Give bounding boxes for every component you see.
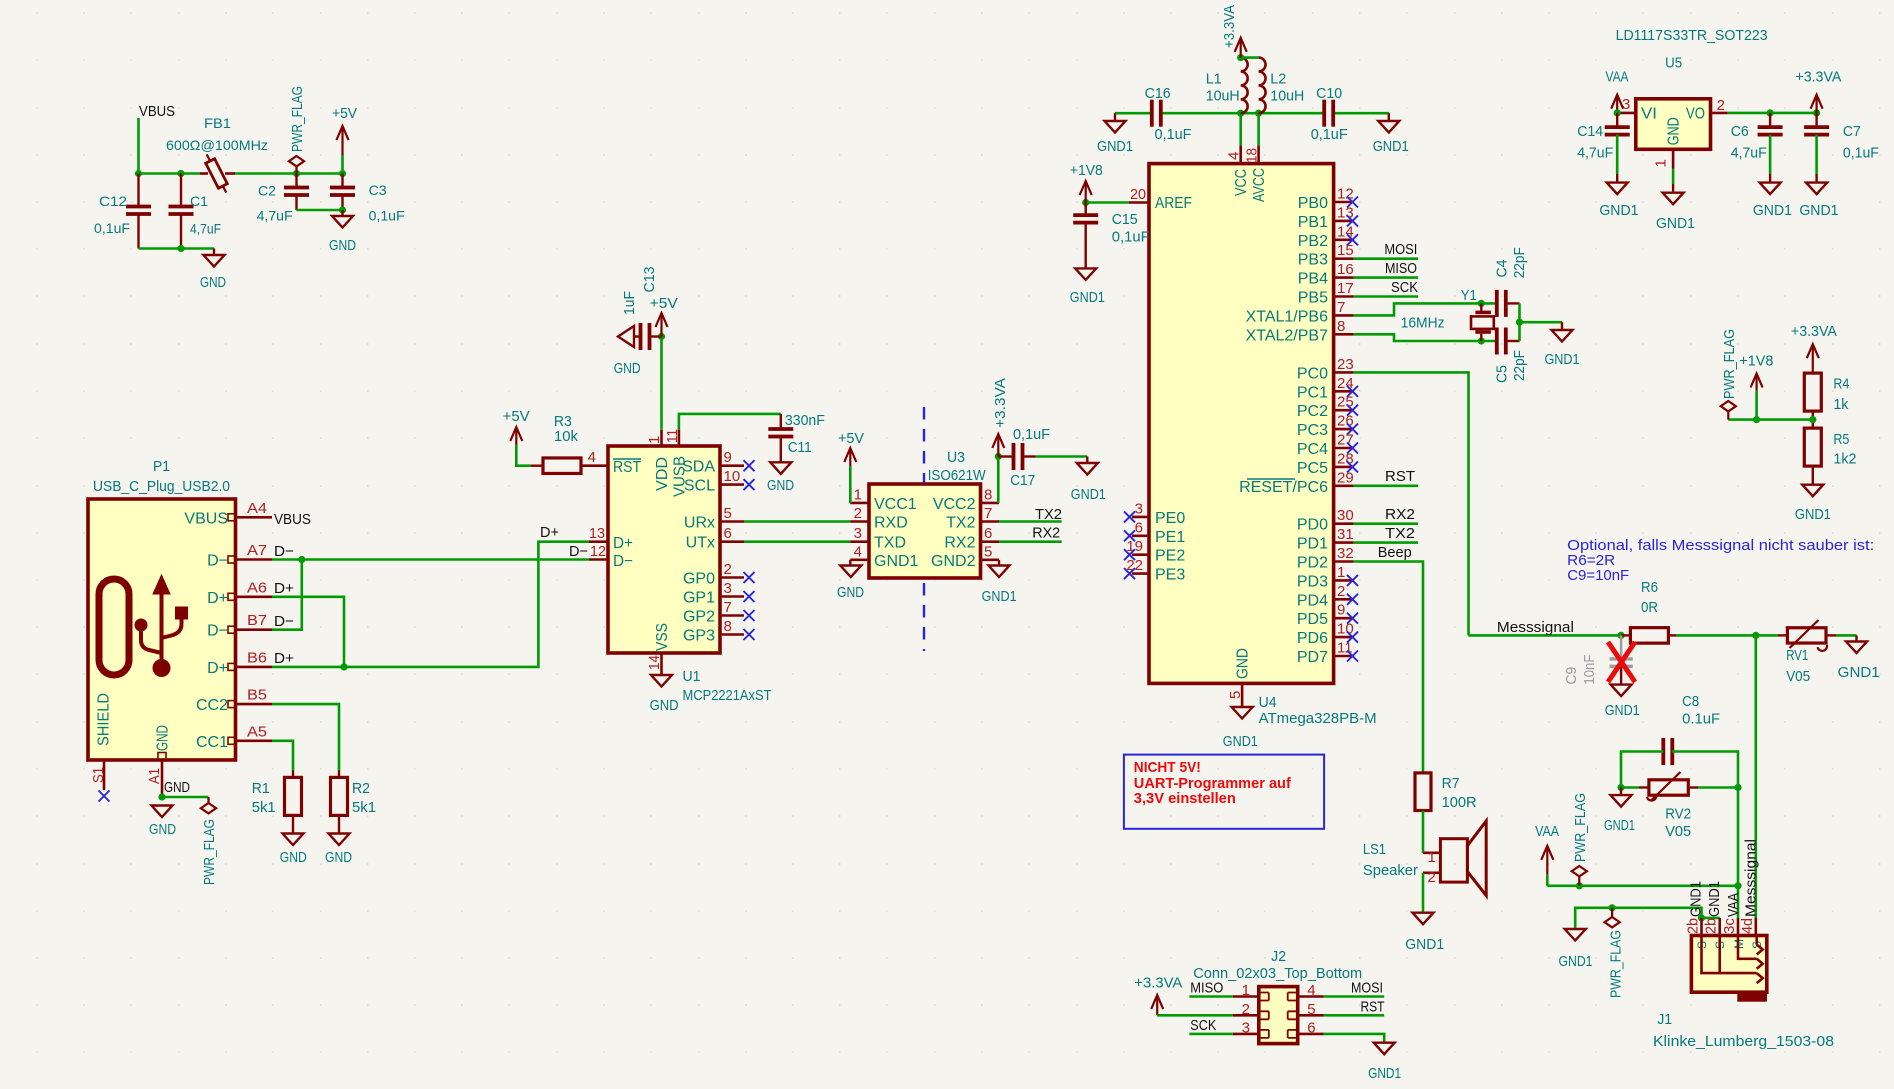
junction: [1618, 632, 1625, 639]
svg-text:J1: J1: [1657, 1011, 1672, 1028]
svg-text:4,7uF: 4,7uF: [257, 208, 293, 224]
ground GND left of C13: [618, 326, 634, 347]
ground GND1 right of C10: [1388, 113, 1390, 121]
svg-text:PE0: PE0: [1155, 510, 1185, 527]
svg-text:GND: GND: [325, 849, 352, 866]
wire J2 pin6 to GND1: [1324, 1034, 1385, 1043]
junction: [1237, 110, 1244, 117]
U1 pin 9 SDA: [720, 464, 744, 467]
svg-text:22pF: 22pF: [1511, 247, 1528, 278]
crystal Y1 16MHz: [1480, 303, 1482, 310]
svg-text:0,1uF: 0,1uF: [369, 208, 405, 224]
svg-text:4,7uF: 4,7uF: [1577, 144, 1613, 161]
svg-text:VI: VI: [1641, 105, 1657, 122]
svg-text:2: 2: [1337, 583, 1345, 600]
P1 pin A1 GND: [161, 760, 164, 797]
svg-text:3: 3: [1135, 500, 1143, 517]
svg-text:L2: L2: [1270, 71, 1286, 88]
junction: [658, 333, 665, 340]
svg-text:2: 2: [724, 561, 732, 578]
no-connect PB2: [1347, 234, 1358, 245]
svg-text:1k: 1k: [1833, 396, 1848, 413]
svg-text:GND1: GND1: [1795, 506, 1831, 523]
svg-text:SCK: SCK: [1391, 279, 1418, 296]
U1 pin 8 GP3: [720, 633, 744, 636]
svg-text:V05: V05: [1665, 823, 1691, 840]
U3 pin 7 TX2: [981, 520, 1000, 523]
svg-text:ISO621W: ISO621W: [928, 467, 987, 484]
svg-text:8: 8: [1337, 318, 1345, 335]
svg-text:A4: A4: [247, 500, 267, 517]
svg-text:4: 4: [1307, 982, 1315, 999]
U4 pin 29 RESET/PC6: [1334, 484, 1354, 487]
svg-text:+5V: +5V: [503, 408, 530, 425]
junction: [1752, 632, 1759, 639]
svg-text:2: 2: [1428, 869, 1436, 886]
svg-text:PD4: PD4: [1297, 592, 1328, 609]
junction: [1516, 319, 1523, 326]
no-connect PE0: [1124, 511, 1135, 522]
svg-text:+5V: +5V: [838, 430, 864, 447]
svg-text:PB0: PB0: [1298, 195, 1328, 212]
svg-text:VSS: VSS: [654, 623, 671, 651]
svg-text:7: 7: [1337, 299, 1345, 316]
svg-text:10uH: 10uH: [1270, 88, 1304, 105]
power +1V8 at divider: [1755, 391, 1758, 420]
no-connect GP2: [744, 610, 755, 621]
P1 pin A6 D+: [236, 595, 273, 598]
J2 pin 1: [1233, 995, 1259, 998]
svg-text:PD1: PD1: [1297, 536, 1328, 553]
ground GND under C11: [770, 462, 791, 474]
svg-text:19: 19: [1126, 538, 1143, 555]
P1 pin B6 D+: [236, 666, 273, 669]
svg-text:0.1uF: 0.1uF: [1682, 710, 1720, 727]
svg-text:RST: RST: [1385, 468, 1415, 485]
svg-text:4: 4: [588, 449, 596, 466]
svg-text:GND1: GND1: [1599, 202, 1638, 219]
svg-text:C7: C7: [1843, 123, 1861, 140]
svg-text:5: 5: [1227, 691, 1244, 699]
wire TX2: [1354, 541, 1418, 544]
svg-text:10uH: 10uH: [1206, 88, 1240, 105]
U4 pin 9 PD5: [1334, 617, 1354, 620]
svg-text:RX2: RX2: [1385, 506, 1415, 523]
no-connect PE3: [1124, 568, 1135, 579]
wire AREF: [1086, 201, 1129, 204]
no-connect PB1: [1347, 215, 1358, 226]
U4 pin 11 PD7: [1334, 655, 1354, 658]
svg-text:GND: GND: [1235, 648, 1252, 679]
svg-text:31: 31: [1337, 526, 1354, 543]
svg-text:SHIELD: SHIELD: [96, 693, 113, 746]
svg-text:C9: C9: [1563, 667, 1580, 685]
svg-text:14: 14: [646, 655, 663, 670]
ground GND1 under speaker: [1413, 913, 1434, 925]
svg-text:D−: D−: [613, 553, 633, 570]
svg-text:C9=10nF: C9=10nF: [1567, 567, 1629, 584]
svg-text:GND1: GND1: [1753, 202, 1792, 219]
ground GND1 left of C16: [1114, 113, 1116, 121]
svg-text:GND1: GND1: [1405, 936, 1444, 953]
U5 pin 2 VO: [1711, 112, 1728, 115]
svg-text:C12: C12: [99, 193, 127, 209]
wire VUSB to C11: [679, 414, 781, 430]
junction: [1478, 337, 1485, 344]
U4 pin 32 PD2: [1334, 560, 1354, 563]
J1 pin 2b GND1: [1700, 918, 1703, 936]
wire URx to U3 RXD: [744, 520, 850, 523]
U4 pin 6 PE1: [1132, 534, 1149, 537]
ground GND1 at crystal: [1561, 322, 1563, 330]
svg-text:0R: 0R: [1641, 599, 1658, 616]
svg-text:PB5: PB5: [1298, 290, 1328, 307]
svg-text:Messsignal: Messsignal: [1743, 839, 1760, 917]
svg-text:PC4: PC4: [1297, 441, 1328, 458]
svg-text:20: 20: [1130, 186, 1146, 203]
svg-text:PD5: PD5: [1297, 611, 1328, 628]
svg-text:AVCC: AVCC: [1251, 168, 1268, 202]
wire MOSI: [1354, 257, 1418, 260]
U4 pin 25 PC2: [1334, 409, 1354, 412]
U1 pin 12 D-: [589, 558, 608, 561]
svg-text:0,1uF: 0,1uF: [1112, 229, 1150, 246]
capacitor C7 0,1uF: [1815, 113, 1817, 127]
wire C16 rail: [1115, 112, 1152, 115]
ground GND1 right of C17: [1086, 457, 1088, 464]
U3 pin 4 GND1: [850, 558, 869, 561]
svg-text:C3: C3: [369, 182, 387, 198]
svg-text:C6: C6: [1731, 123, 1749, 140]
ground GND under R2: [329, 834, 350, 846]
J2 pin 3: [1233, 1033, 1259, 1036]
svg-text:R6: R6: [1641, 579, 1658, 596]
svg-text:8: 8: [724, 618, 732, 635]
ground GND1 at J2: [1374, 1043, 1395, 1055]
svg-text:4: 4: [854, 543, 862, 560]
no-connect PC1: [1347, 386, 1358, 397]
svg-text:0,1uF: 0,1uF: [1311, 126, 1348, 143]
svg-text:GND: GND: [329, 237, 356, 254]
svg-text:GP3: GP3: [683, 628, 715, 645]
svg-text:1k2: 1k2: [1833, 451, 1856, 468]
svg-text:16MHz: 16MHz: [1401, 314, 1445, 331]
U1 pin 3 GP1: [720, 595, 744, 598]
svg-text:6: 6: [1135, 519, 1143, 536]
svg-text:GND1: GND1: [1656, 215, 1695, 232]
ground GND1 under U3 pin5: [998, 560, 1000, 566]
svg-text:R2: R2: [352, 780, 370, 797]
wire speaker to GND1: [1422, 873, 1425, 912]
resistor R7 100R: [1415, 773, 1431, 811]
svg-text:GND1: GND1: [982, 588, 1017, 605]
svg-text:RXD: RXD: [874, 515, 908, 532]
power +5V above U1: [660, 313, 662, 337]
svg-text:11: 11: [664, 429, 681, 443]
svg-text:+3.3VA: +3.3VA: [1221, 5, 1238, 48]
J1 pin 3c VAA: [1737, 918, 1740, 936]
svg-text:URx: URx: [684, 515, 715, 532]
svg-text:32: 32: [1337, 545, 1354, 562]
wire Messsignal vertical to J1: [1755, 635, 1758, 918]
svg-text:29: 29: [1337, 469, 1354, 486]
wire Messsignal horizontal: [1469, 634, 1622, 637]
svg-text:V05: V05: [1786, 668, 1810, 685]
no-connect SDA: [744, 460, 755, 471]
power +5V at R3: [515, 427, 517, 445]
svg-text:RV2: RV2: [1665, 806, 1691, 823]
junction: [1576, 882, 1583, 889]
svg-text:GND: GND: [164, 779, 190, 796]
svg-text:PD3: PD3: [1297, 573, 1328, 590]
svg-text:Speaker: Speaker: [1363, 862, 1418, 879]
wire VBUS horizontal: [139, 172, 201, 175]
capacitor C1: [180, 174, 182, 207]
power flag PWR_FLAG at divider: [1721, 401, 1736, 411]
svg-text:TX2: TX2: [1385, 525, 1415, 542]
ground GND1 under RV2 left: [1620, 788, 1622, 796]
wire VCC rail: [1239, 113, 1242, 145]
svg-text:GND1: GND1: [1604, 817, 1635, 834]
ground GND1 under R5: [1802, 485, 1823, 497]
svg-text:8: 8: [984, 486, 992, 503]
varistor RV1 V05: [1787, 628, 1826, 643]
svg-text:PB2: PB2: [1298, 233, 1328, 250]
resistor R2 5k1: [338, 771, 340, 778]
U4 pin 22 PE3: [1132, 572, 1149, 575]
U5 pin 1 GND: [1672, 149, 1675, 168]
svg-text:A6: A6: [247, 579, 267, 596]
svg-text:SCK: SCK: [1190, 1017, 1216, 1034]
junction: [339, 170, 346, 177]
svg-text:PC3: PC3: [1297, 422, 1328, 439]
wire C12/C1 to GND: [139, 247, 215, 250]
resistor R1 5k1: [292, 771, 294, 778]
wire D- branch to B7: [272, 560, 302, 630]
svg-text:GND: GND: [767, 477, 794, 494]
svg-text:C5: C5: [1493, 365, 1510, 383]
svg-text:1: 1: [854, 486, 862, 503]
U4 pin 20 AREF: [1129, 201, 1149, 204]
svg-text:RX2: RX2: [944, 535, 975, 552]
svg-text:TX2: TX2: [1035, 506, 1062, 523]
U4 pin 1 PD3: [1334, 579, 1354, 582]
wire RV1 to GND1: [1826, 634, 1836, 636]
svg-text:RX2: RX2: [1032, 525, 1060, 542]
svg-text:B5: B5: [247, 687, 267, 704]
svg-text:10nF: 10nF: [1581, 655, 1598, 685]
svg-text:UTx: UTx: [686, 535, 715, 552]
svg-text:1: 1: [646, 436, 663, 444]
svg-text:PWR_FLAG: PWR_FLAG: [1721, 329, 1738, 399]
wire CC2 to R2: [272, 704, 339, 770]
U3 pin 6 RX2: [981, 540, 1000, 543]
svg-text:RV1: RV1: [1786, 647, 1808, 664]
no-connect PC2: [1347, 405, 1358, 416]
svg-text:MCP2221AxST: MCP2221AxST: [683, 687, 772, 704]
no-connect PD5: [1347, 613, 1358, 624]
wire SCK: [1354, 295, 1418, 298]
junction: [1698, 914, 1705, 921]
svg-text:RST: RST: [613, 459, 641, 476]
svg-text:+5V: +5V: [332, 105, 357, 122]
svg-text:D−: D−: [274, 613, 294, 630]
resistor R6 0R: [1621, 634, 1630, 636]
svg-text:U5: U5: [1665, 55, 1682, 72]
junction: [1753, 416, 1760, 423]
svg-text:LD1117S33TR_SOT223: LD1117S33TR_SOT223: [1616, 27, 1768, 44]
power +5V: [341, 126, 343, 155]
svg-text:VDD: VDD: [654, 457, 671, 491]
ground GND under U1: [651, 675, 672, 687]
capacitor C12: [137, 174, 139, 207]
svg-text:2: 2: [1717, 97, 1725, 114]
wire +5V to R3: [516, 445, 531, 466]
svg-text:+3.3VA: +3.3VA: [992, 378, 1009, 428]
U1 pin 7 GP2: [720, 614, 744, 617]
junction: [158, 793, 165, 800]
ground GND1 under C6: [1760, 183, 1781, 195]
svg-text:2b: 2b: [1703, 918, 1720, 934]
svg-text:SDA: SDA: [682, 459, 715, 476]
junction: [298, 556, 305, 563]
junction: [293, 170, 300, 177]
power +1V8: [1085, 181, 1087, 203]
svg-text:C15: C15: [1112, 211, 1138, 228]
wire GND1 rail to J1: [1575, 908, 1701, 928]
wire VDD to +5V/C13: [660, 337, 663, 430]
svg-text:A1: A1: [146, 768, 163, 784]
svg-text:RST: RST: [1361, 999, 1385, 1016]
svg-text:+3.3VA: +3.3VA: [1791, 323, 1837, 340]
wire VBUS vertical: [137, 118, 140, 174]
junction: [135, 170, 142, 177]
wire D- net: [272, 558, 589, 561]
power +3.3VA at J2: [1156, 995, 1158, 1015]
svg-text:P1: P1: [153, 458, 170, 475]
P1 pin A7 D−: [236, 558, 273, 561]
U3 pin 8 VCC2: [981, 502, 1000, 505]
power flag PWR_FLAG: [289, 156, 304, 166]
svg-text:L1: L1: [1206, 71, 1222, 88]
svg-text:PB3: PB3: [1298, 252, 1328, 269]
svg-text:GND1: GND1: [1559, 953, 1593, 970]
svg-text:D−: D−: [207, 553, 228, 570]
junction: [177, 245, 184, 252]
svg-text:100R: 100R: [1442, 794, 1477, 811]
connector J1 Klinke_Lumberg_1503-08: [1691, 936, 1766, 993]
svg-text:GND1: GND1: [1373, 138, 1409, 155]
wire to J1 pin 2b second: [1702, 917, 1720, 920]
no-connect GP1: [744, 591, 755, 602]
no-connect S1: [99, 791, 110, 802]
U4 pin 7 XTAL1/PB6: [1334, 314, 1354, 317]
svg-text:+3.3VA: +3.3VA: [1134, 975, 1182, 992]
U4 pin 13 PB1: [1334, 220, 1354, 223]
svg-text:PWR_FLAG: PWR_FLAG: [1607, 930, 1624, 998]
no-connect GP3: [744, 629, 755, 640]
ground GND: [213, 249, 215, 256]
wire D+ net B6: [272, 542, 589, 667]
wire UTx to U3 TXD: [744, 540, 850, 543]
U4 pin 19 PE2: [1132, 553, 1149, 556]
ground GND1 under C9: [1611, 685, 1632, 697]
svg-text:1: 1: [1337, 564, 1345, 581]
svg-text:6: 6: [984, 525, 992, 542]
svg-text:PC5: PC5: [1297, 460, 1328, 477]
svg-text:C10: C10: [1316, 85, 1342, 102]
U1 pin 5 URx: [720, 520, 744, 523]
svg-text:GND: GND: [280, 849, 307, 866]
svg-text:PC2: PC2: [1297, 403, 1328, 420]
svg-text:GP1: GP1: [683, 590, 715, 607]
wire PC0 to Messsignal: [1354, 372, 1469, 635]
capacitor C11 330nF: [780, 414, 782, 429]
capacitor C15 0,1uF: [1084, 203, 1086, 216]
wire R6 to RV1: [1676, 634, 1778, 637]
svg-text:Y1: Y1: [1461, 287, 1477, 304]
svg-text:PD2: PD2: [1297, 555, 1328, 572]
svg-text:6: 6: [724, 525, 732, 542]
svg-text:22: 22: [1126, 557, 1143, 574]
svg-text:4,7uF: 4,7uF: [1731, 144, 1767, 161]
U4 pin 3 PE0: [1132, 516, 1149, 519]
ground GND1 under C14: [1607, 183, 1628, 195]
svg-text:GND1: GND1: [1688, 881, 1705, 917]
svg-text:FB1: FB1: [204, 115, 231, 131]
svg-text:C8: C8: [1682, 693, 1699, 710]
svg-text:PC0: PC0: [1297, 365, 1328, 382]
U1 pin 13 D+: [589, 540, 608, 543]
svg-text:SCL: SCL: [684, 478, 715, 495]
junction: [1082, 199, 1089, 206]
ferrite bead FB1: [200, 172, 208, 175]
svg-text:TX2: TX2: [946, 515, 975, 532]
svg-text:RESET/PC6: RESET/PC6: [1239, 479, 1328, 496]
svg-text:0,1uF: 0,1uF: [1843, 144, 1879, 161]
svg-text:VBUS: VBUS: [139, 103, 175, 120]
capacitor C13 1uF: [639, 323, 643, 350]
no-connect PD6: [1347, 632, 1358, 643]
junction: [1813, 109, 1820, 116]
svg-text:GND1: GND1: [1071, 486, 1106, 503]
svg-text:D+: D+: [207, 590, 228, 607]
note frame NICHT 5V: [1124, 755, 1324, 829]
U4 pin 18 AVCC: [1257, 145, 1260, 163]
svg-text:C16: C16: [1145, 85, 1171, 102]
U4 pin 28 PC5: [1334, 466, 1354, 469]
U4 pin 8 XTAL2/PB7: [1334, 333, 1354, 336]
capacitor C14 4,7uF: [1616, 113, 1618, 127]
junction: [1614, 109, 1621, 116]
svg-text:4,7uF: 4,7uF: [190, 221, 221, 237]
svg-text:7: 7: [984, 505, 992, 522]
svg-text:GND1: GND1: [1706, 881, 1723, 917]
svg-text:+5V: +5V: [650, 295, 678, 312]
capacitor C2: [295, 174, 297, 188]
U4 pin 5 GND: [1241, 683, 1244, 707]
svg-text:5: 5: [984, 543, 992, 560]
U3 pin 1 VCC1: [850, 502, 869, 505]
no-connect PE2: [1124, 549, 1135, 560]
svg-text:J2: J2: [1271, 948, 1286, 965]
wire +1V8 node: [1728, 418, 1813, 421]
U3 pin 5 GND2: [981, 558, 1000, 561]
svg-text:D+: D+: [274, 580, 294, 597]
svg-text:MISO: MISO: [1385, 260, 1417, 277]
svg-text:GND1: GND1: [1799, 202, 1838, 219]
svg-text:VCC2: VCC2: [933, 496, 976, 513]
